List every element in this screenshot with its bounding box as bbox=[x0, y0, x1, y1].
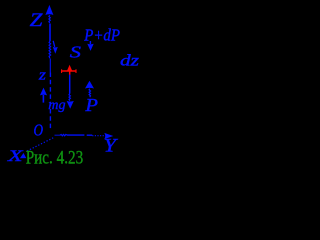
svg-text:Рис. 4.23: Рис. 4.23 bbox=[26, 148, 83, 169]
svg-text:P: P bbox=[84, 95, 98, 115]
svg-text:X: X bbox=[7, 148, 25, 165]
svg-text:z: z bbox=[38, 68, 47, 84]
svg-text:O: O bbox=[34, 120, 44, 139]
svg-text:mg: mg bbox=[48, 98, 65, 113]
svg-text:P+dP: P+dP bbox=[83, 25, 120, 44]
svg-text:S: S bbox=[70, 43, 81, 62]
svg-text:dz: dz bbox=[120, 53, 140, 70]
svg-text:Z: Z bbox=[30, 10, 43, 31]
